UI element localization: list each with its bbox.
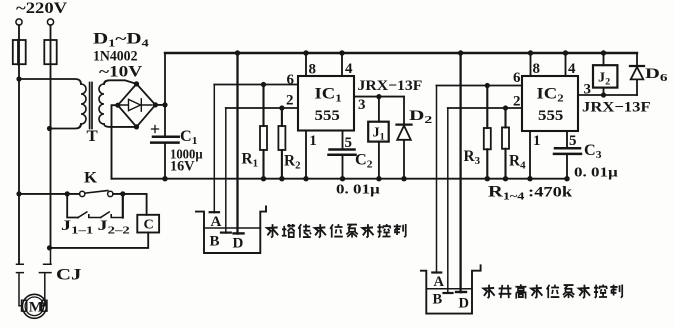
svg-text:1: 1	[309, 133, 317, 149]
wire IC2 pin1	[529, 131, 531, 179]
transformer T primary winding	[81, 84, 86, 124]
resistor R3	[486, 86, 488, 129]
bridge rectifier D1-D4 diamond	[118, 84, 156, 127]
wire ground bottom rail	[112, 178, 567, 180]
svg-text:B: B	[433, 292, 443, 308]
node rail J2	[601, 50, 606, 55]
node R4 top	[503, 105, 508, 110]
bridge inner diode	[121, 99, 153, 111]
relay coil J2	[603, 53, 605, 95]
node R3 top	[485, 83, 490, 88]
fuse F2	[44, 40, 56, 64]
transformer T secondary winding	[99, 84, 104, 124]
node rail D-wire-1	[235, 50, 240, 55]
wire bridge minus to ground rail	[112, 105, 118, 179]
node rail D-wire-2	[458, 50, 463, 55]
svg-text:555: 555	[315, 108, 340, 124]
wire L1 vertical	[18, 25, 20, 264]
wire C2 to ground	[342, 155, 344, 179]
node ground C2	[340, 176, 345, 181]
wire IC1 pin5	[342, 131, 344, 150]
wire V+ top rail	[165, 52, 637, 54]
motor M body	[22, 294, 46, 318]
svg-text:R1~4 :470k: R1~4 :470k	[488, 183, 573, 202]
capacitor C3 plates	[554, 148, 581, 154]
svg-text:4: 4	[345, 61, 353, 77]
svg-text:K: K	[84, 170, 98, 186]
wire K right to C coil	[113, 194, 147, 215]
svg-text:T: T	[87, 129, 99, 145]
wire C1 to ground rail	[164, 143, 166, 179]
label text water-well-high-level	[484, 284, 623, 298]
wire tank2 electrode A	[436, 86, 438, 273]
node J2 bottom	[601, 92, 606, 97]
tank2 outline	[421, 265, 481, 313]
contactor contact CJ left pole	[17, 264, 24, 306]
svg-text:6: 6	[287, 72, 295, 88]
node bridge left vertex	[115, 103, 120, 108]
svg-text:J1–1: J1–1	[61, 217, 93, 236]
wire IC1 pin2 line	[226, 107, 298, 109]
wire V+ riser	[164, 53, 166, 136]
wire L2 vertical	[50, 25, 52, 248]
svg-text:3: 3	[584, 82, 592, 98]
node bridge top vertex	[134, 81, 139, 86]
node R2 top	[279, 105, 284, 110]
svg-text:IC1: IC1	[315, 85, 342, 104]
svg-text:2: 2	[286, 93, 294, 109]
wire contacts branch left drop	[67, 194, 78, 218]
svg-text:D2: D2	[409, 107, 433, 125]
svg-text:D1~D4: D1~D4	[93, 30, 149, 49]
svg-text:0. 01µ: 0. 01µ	[336, 182, 380, 197]
wire C coil bottom return	[50, 233, 149, 248]
tank2 water line	[426, 288, 472, 290]
node bridge bottom vertex	[134, 124, 139, 129]
node ground C1	[162, 176, 167, 181]
node contacts branch left	[65, 191, 70, 196]
resistor R1	[262, 85, 264, 127]
svg-text:8: 8	[309, 62, 317, 78]
wire tank2 electrode B	[447, 108, 449, 293]
node J1 top	[376, 94, 381, 99]
relay coil J1	[378, 97, 380, 122]
node L2-primary junction	[47, 126, 52, 131]
svg-text:~10V: ~10V	[99, 62, 143, 80]
node rail pin4 IC1	[339, 50, 344, 55]
wire secondary top lead	[104, 80, 137, 84]
terminal L2	[47, 19, 53, 25]
svg-text:D: D	[459, 296, 469, 312]
wire IC2 pin5	[566, 131, 568, 148]
wire IC2 pin4	[565, 53, 567, 76]
node ground pin1 IC2	[527, 176, 532, 181]
svg-text:2: 2	[513, 93, 521, 109]
switch K right terminal	[108, 191, 113, 196]
wire IC1 pin3 line	[354, 96, 404, 98]
svg-text:C: C	[144, 218, 154, 233]
ic IC2 555 box	[522, 76, 578, 131]
tank1 outline	[196, 207, 266, 254]
wire IC1 pin8	[305, 53, 307, 76]
svg-text:R1: R1	[242, 151, 259, 170]
svg-text:C3: C3	[584, 142, 602, 161]
svg-text:JRX−13F: JRX−13F	[582, 99, 651, 115]
svg-text:B: B	[210, 234, 220, 250]
capacitor C1 plus sign	[152, 126, 159, 133]
wire C3 to ground	[566, 154, 568, 179]
node rail pin4 IC2	[563, 50, 568, 55]
ic IC1 555 box	[298, 76, 354, 131]
wire IC2 pin3 line	[578, 94, 637, 96]
svg-text:R2: R2	[284, 153, 301, 172]
switch K left terminal	[80, 191, 85, 196]
node C1 top junction	[162, 102, 167, 107]
svg-text:J2: J2	[598, 71, 610, 88]
wire tank1 electrode D	[236, 53, 238, 234]
svg-text:J1: J1	[373, 126, 385, 143]
svg-text:R4: R4	[509, 153, 526, 172]
wire tank1 electrode B	[225, 108, 227, 233]
terminal L1	[16, 19, 22, 25]
node rail pin8 IC2	[528, 50, 533, 55]
node K branch junction	[16, 191, 21, 196]
transformer T core	[90, 83, 92, 129]
resistor R2	[281, 108, 283, 126]
svg-text:0. 01µ: 0. 01µ	[574, 165, 618, 180]
svg-text:6: 6	[513, 70, 521, 86]
motor M left brush	[22, 300, 27, 311]
svg-text:3: 3	[358, 97, 366, 113]
motor M right brush	[42, 300, 47, 311]
relay contact J1-1	[78, 212, 101, 218]
svg-text:8: 8	[533, 61, 541, 77]
svg-text:~220V: ~220V	[16, 0, 68, 17]
node rail pin8 IC1	[303, 50, 308, 55]
svg-text:4: 4	[568, 61, 576, 77]
svg-text:M: M	[29, 300, 44, 316]
svg-text:C1: C1	[180, 128, 198, 147]
svg-text:IC2: IC2	[537, 85, 564, 104]
svg-text:555: 555	[538, 108, 563, 124]
svg-text:D: D	[233, 236, 244, 252]
label text water-tower-low-level	[267, 224, 406, 238]
tank1 water line	[204, 227, 260, 229]
resistor R4	[504, 108, 506, 127]
wire bridge plus to C1 line	[155, 104, 165, 106]
svg-text:D6: D6	[645, 65, 668, 84]
svg-text:16V: 16V	[170, 159, 195, 175]
wire IC2 pin8	[530, 53, 532, 76]
capacitor C1 plates	[151, 137, 179, 143]
node bridge right vertex	[153, 102, 158, 107]
wire K branch	[19, 193, 80, 195]
wire IC1 pin4	[341, 53, 343, 76]
node R1 top	[261, 82, 266, 87]
node L1-primary junction	[16, 76, 21, 81]
capacitor C2 plates	[329, 150, 356, 155]
svg-text:C2: C2	[355, 152, 373, 171]
node ground C3	[564, 176, 569, 181]
wire IC1 pin6 line	[214, 84, 298, 86]
svg-text:JRX−13F: JRX−13F	[358, 77, 423, 94]
diode D2	[397, 97, 411, 179]
svg-text:1: 1	[533, 133, 541, 149]
wire IC1 pin1	[305, 131, 307, 179]
wire primary top lead	[19, 79, 81, 84]
wire IC2 pin6 line	[437, 85, 523, 87]
node contacts branch right	[120, 191, 125, 196]
svg-text:R3: R3	[464, 148, 481, 167]
svg-text:5: 5	[569, 133, 577, 149]
wire tank1 electrode A	[213, 85, 215, 213]
fuse F1	[13, 40, 26, 64]
contactor contact CJ right pole	[39, 248, 51, 306]
contactor coil C box	[137, 215, 159, 233]
wire IC2 pin2 line	[448, 107, 522, 109]
switch K blade	[86, 191, 108, 194]
wire contacts branch right rise	[122, 194, 124, 218]
wire secondary bottom lead	[104, 124, 137, 127]
wire tank2 electrode D	[459, 53, 461, 292]
relay contact J2-2	[101, 212, 123, 218]
svg-text:J2–2: J2–2	[98, 217, 130, 236]
svg-text:A: A	[434, 274, 445, 290]
diode D6	[631, 53, 644, 95]
node ground pin1 IC1	[303, 176, 308, 181]
svg-text:CJ: CJ	[56, 266, 81, 283]
wire primary bottom lead	[50, 124, 82, 129]
svg-text:A: A	[211, 214, 222, 230]
node C return junction	[47, 245, 52, 250]
